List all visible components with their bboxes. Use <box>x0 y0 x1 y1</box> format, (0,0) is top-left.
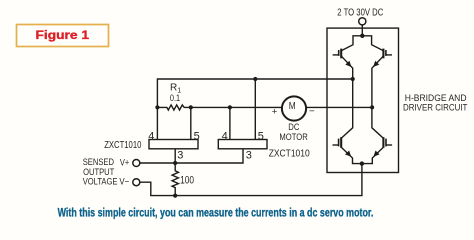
svg-text:−: − <box>309 106 315 117</box>
svg-text:V+: V+ <box>120 157 129 167</box>
svg-text:3: 3 <box>246 150 252 162</box>
svg-text:Figure 1: Figure 1 <box>36 30 90 42</box>
svg-text:4: 4 <box>222 130 228 142</box>
svg-text:ZXCT1010: ZXCT1010 <box>104 140 142 151</box>
svg-text:OUTPUT: OUTPUT <box>83 167 115 177</box>
svg-text:DRIVER CIRCUIT: DRIVER CIRCUIT <box>403 102 468 113</box>
svg-text:MOTOR: MOTOR <box>279 132 308 143</box>
svg-text:0.1: 0.1 <box>170 92 180 103</box>
svg-text:SENSED: SENSED <box>83 157 115 167</box>
svg-text:100: 100 <box>180 174 194 186</box>
svg-text:V−: V− <box>119 177 129 187</box>
svg-text:+: + <box>272 107 278 118</box>
svg-text:4: 4 <box>148 130 154 142</box>
svg-text:2 TO 30V DC: 2 TO 30V DC <box>337 8 383 19</box>
svg-text:M: M <box>289 101 296 112</box>
svg-text:3: 3 <box>177 150 183 162</box>
svg-text:VOLTAGE: VOLTAGE <box>83 177 118 187</box>
svg-text:5: 5 <box>258 130 264 142</box>
svg-text:With this simple circuit, you: With this simple circuit, you can measur… <box>58 206 374 219</box>
svg-text:ZXCT1010: ZXCT1010 <box>269 148 310 159</box>
svg-text:5: 5 <box>194 130 200 142</box>
